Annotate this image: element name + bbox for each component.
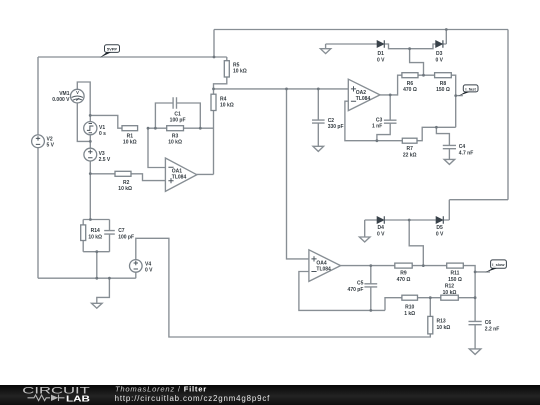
svg-text:R10: R10 (405, 305, 414, 311)
svg-text:10 kΩ: 10 kΩ (88, 235, 102, 241)
svg-text:V: V (76, 90, 79, 95)
svg-text:C5: C5 (357, 281, 364, 287)
svg-text:150 Ω: 150 Ω (436, 87, 450, 93)
svg-text:R14: R14 (91, 228, 100, 234)
svg-text:470 pF: 470 pF (348, 287, 364, 293)
svg-text:C7: C7 (118, 228, 125, 234)
svg-text:2.2 nF: 2.2 nF (485, 327, 499, 333)
svg-text:TL084: TL084 (316, 266, 331, 272)
svg-text:C6: C6 (485, 320, 492, 326)
svg-text:D3: D3 (436, 51, 443, 57)
svg-text:D4: D4 (377, 225, 384, 231)
svg-text:150 Ω: 150 Ω (448, 277, 462, 283)
svg-text:22 kΩ: 22 kΩ (403, 153, 417, 159)
svg-text:R12: R12 (445, 284, 454, 290)
svg-text:R13: R13 (437, 319, 446, 325)
svg-text:4.7 nF: 4.7 nF (459, 151, 473, 157)
svg-text:0 V: 0 V (377, 58, 385, 64)
svg-text:2.5 V: 2.5 V (99, 157, 111, 163)
svg-text:D5: D5 (436, 225, 443, 231)
svg-text:10 kΩ: 10 kΩ (123, 140, 137, 146)
svg-text:0.000 V: 0.000 V (52, 97, 70, 103)
svg-text:470 Ω: 470 Ω (397, 277, 411, 283)
svg-text:D1: D1 (377, 51, 384, 57)
svg-text:TL084: TL084 (172, 175, 187, 181)
svg-text:0 V: 0 V (435, 58, 443, 64)
svg-text:5 V: 5 V (47, 143, 55, 149)
svg-text:C4: C4 (459, 144, 466, 150)
svg-text:R9: R9 (400, 271, 407, 277)
svg-text:5VPP: 5VPP (107, 47, 118, 52)
svg-text:10 kΩ: 10 kΩ (437, 325, 451, 331)
svg-text:10 kΩ: 10 kΩ (118, 186, 132, 192)
svg-text:10 kΩ: 10 kΩ (168, 140, 182, 146)
svg-text:330 pF: 330 pF (328, 124, 344, 130)
svg-text:0 s: 0 s (99, 131, 106, 137)
svg-text:I_slow: I_slow (492, 262, 505, 267)
svg-text:0 V: 0 V (377, 232, 385, 238)
svg-text:0 V: 0 V (436, 232, 444, 238)
svg-text:10 kΩ: 10 kΩ (220, 103, 234, 109)
svg-text:R7: R7 (406, 146, 413, 152)
svg-text:470 Ω: 470 Ω (403, 87, 417, 93)
svg-text:R11: R11 (451, 271, 460, 277)
svg-text:TL084: TL084 (356, 96, 371, 102)
svg-text:10 kΩ: 10 kΩ (233, 69, 247, 75)
svg-text:100 pF: 100 pF (118, 235, 134, 241)
svg-text:0 V: 0 V (145, 268, 153, 274)
svg-text:1 nF: 1 nF (372, 124, 382, 130)
svg-text:100 pF: 100 pF (170, 118, 186, 124)
svg-text:I_fast: I_fast (465, 86, 476, 91)
svg-text:1 kΩ: 1 kΩ (404, 311, 415, 317)
svg-text:10 kΩ: 10 kΩ (443, 290, 457, 296)
